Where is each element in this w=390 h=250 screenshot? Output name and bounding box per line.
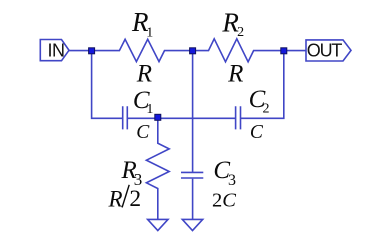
svg-text:3: 3: [228, 172, 236, 189]
svg-text:IN: IN: [48, 41, 65, 61]
svg-text:2: 2: [129, 186, 141, 212]
svg-text:1: 1: [146, 25, 153, 40]
svg-text:R: R: [227, 61, 243, 88]
svg-text:C: C: [136, 122, 150, 143]
svg-text:2: 2: [263, 102, 270, 117]
svg-text:OUT: OUT: [307, 41, 343, 61]
svg-text:2C: 2C: [212, 189, 236, 211]
svg-text:R: R: [107, 187, 122, 212]
svg-text:R: R: [136, 61, 152, 88]
svg-text:2: 2: [237, 25, 244, 40]
svg-text:C: C: [250, 122, 264, 143]
svg-text:1: 1: [146, 102, 153, 117]
